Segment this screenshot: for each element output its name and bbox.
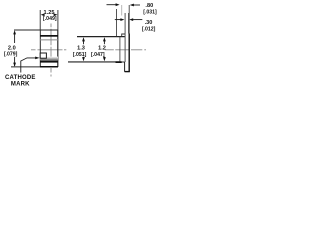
side view right edge thin upper	[128, 5, 130, 34]
middle bottom extension line	[68, 61, 122, 63]
svg-text:.30: .30	[145, 20, 153, 26]
svg-text:[.012]: [.012]	[142, 27, 156, 33]
side view flange corner	[122, 34, 125, 36]
side view right edge thick	[128, 34, 130, 72]
side view lead left line	[124, 13, 126, 62]
top edge + left extension of dim 2.0	[14, 29, 58, 31]
dim 1.25 arrows	[41, 13, 45, 16]
front view body outline	[14, 30, 58, 67]
svg-text:[.031]: [.031]	[143, 10, 157, 16]
dim .80 right arrow and leader	[130, 4, 134, 7]
svg-text:CATHODE: CATHODE	[5, 75, 36, 81]
dim 1.2 arrows	[103, 41, 105, 59]
cathode mark leader arrowhead	[35, 57, 39, 60]
dim .30 arrows	[115, 19, 121, 21]
svg-text:1.2: 1.2	[98, 45, 106, 51]
svg-text:MARK: MARK	[11, 81, 30, 87]
bottom extension line of dim 2.0	[11, 66, 40, 68]
front view bottom gradient band	[40, 57, 58, 61]
side view body bottom thin continuation	[122, 61, 125, 63]
svg-text:[.049]: [.049]	[43, 16, 57, 22]
front view gray line under band	[40, 39, 58, 41]
side view bottom lead left	[124, 62, 126, 72]
side view body left edge	[119, 37, 121, 62]
side view bottom lead bottom	[125, 71, 130, 73]
dim 1.3 arrows	[83, 41, 85, 59]
front view bottom edge	[40, 66, 58, 68]
svg-text:[.051]: [.051]	[73, 52, 87, 58]
cathode mark leader line	[21, 58, 36, 73]
side view faint extension line	[121, 5, 123, 16]
side view left extension line	[116, 9, 118, 36]
front view bottom black band	[40, 61, 58, 63]
middle top extension line	[77, 36, 125, 38]
cathode mark square	[40, 53, 46, 58]
svg-text:[.079]: [.079]	[4, 52, 18, 58]
front view horizontal centerline	[31, 49, 66, 51]
svg-text:1.3: 1.3	[77, 45, 85, 51]
dim 2.0 dimension line with arrows	[14, 32, 16, 67]
svg-text:.80: .80	[145, 3, 153, 9]
front view top terminal band	[40, 35, 58, 37]
dim 1.25 extension lines	[39, 10, 41, 30]
side view horizontal centerline	[105, 49, 146, 51]
svg-text:[.047]: [.047]	[91, 52, 105, 58]
front view vertical centerline	[50, 24, 52, 77]
dim .80 dimension line left arrow	[107, 4, 117, 6]
svg-text:2.0: 2.0	[8, 45, 16, 51]
right edge	[57, 30, 59, 67]
side view body bottom thick edge	[116, 61, 122, 63]
left edge	[39, 30, 41, 67]
side view lead right line	[128, 13, 130, 34]
